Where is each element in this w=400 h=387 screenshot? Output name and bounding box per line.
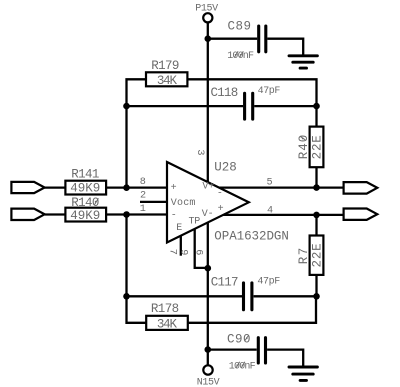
svg-text:2: 2 (140, 191, 146, 202)
svg-text:1: 1 (140, 204, 146, 215)
svg-text:49K9: 49K9 (70, 182, 100, 196)
svg-text:22E: 22E (310, 243, 324, 268)
svg-text:R141: R141 (71, 167, 99, 181)
svg-text:+: + (218, 204, 224, 215)
svg-text:TP: TP (189, 217, 201, 228)
svg-text:47pF: 47pF (258, 86, 281, 97)
svg-text:5: 5 (266, 177, 272, 188)
svg-text:49K9: 49K9 (70, 209, 100, 223)
svg-text:+: + (171, 183, 177, 194)
svg-text:8: 8 (140, 177, 146, 188)
svg-text:V-: V- (202, 209, 214, 220)
svg-text:U28: U28 (214, 160, 237, 174)
svg-text:34K: 34K (157, 317, 178, 331)
svg-text:Vocm: Vocm (171, 198, 196, 209)
svg-text:6: 6 (192, 249, 203, 255)
svg-text:R178: R178 (151, 302, 179, 316)
svg-text:22E: 22E (310, 134, 324, 159)
svg-text:E: E (176, 223, 182, 234)
svg-text:47pF: 47pF (257, 276, 280, 287)
svg-text:C90: C90 (227, 332, 251, 346)
svg-text:V+: V+ (202, 182, 214, 193)
svg-text:OPA1632DGN: OPA1632DGN (214, 230, 289, 244)
svg-text:R7: R7 (297, 246, 311, 264)
svg-text:9: 9 (178, 249, 189, 255)
svg-text:C117: C117 (211, 276, 238, 290)
svg-text:-: - (171, 210, 177, 221)
svg-text:R179: R179 (151, 59, 179, 73)
svg-text:N15V: N15V (197, 377, 220, 387)
svg-text:-: - (217, 188, 223, 199)
svg-text:C89: C89 (228, 19, 252, 33)
svg-text:R40: R40 (297, 134, 311, 160)
svg-text:P15V: P15V (195, 3, 218, 14)
svg-text:R140: R140 (71, 196, 99, 210)
svg-text:7: 7 (167, 249, 178, 255)
svg-text:3: 3 (194, 149, 205, 155)
svg-text:4: 4 (267, 205, 273, 216)
svg-text:C118: C118 (211, 86, 238, 100)
svg-text:34K: 34K (157, 74, 178, 88)
